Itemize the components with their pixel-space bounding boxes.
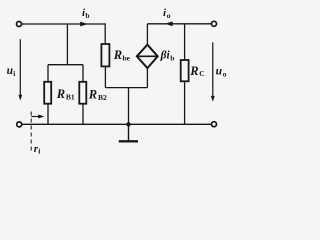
input terminal bottom-left <box>17 122 22 127</box>
svg-text:i: i <box>38 147 40 156</box>
wire R_B1 bottom lead <box>47 104 49 125</box>
arrow u_i (input voltage) <box>19 39 21 97</box>
wire R_C top lead <box>184 24 186 60</box>
junction dot at ground node <box>126 122 130 126</box>
resistor R_B1 <box>44 82 51 104</box>
svg-text:B1: B1 <box>66 92 75 101</box>
wire diamond top lead <box>146 24 148 45</box>
resistor R_B2 <box>79 82 86 104</box>
wire R_be top lead <box>104 23 106 44</box>
wire emitter rail <box>105 87 147 89</box>
svg-text:b: b <box>170 54 174 63</box>
wire top-left horizontal (base node) <box>22 23 105 25</box>
svg-text:B2: B2 <box>98 93 107 102</box>
wire R_B2 bottom lead <box>82 104 84 125</box>
wire diamond bottom lead <box>146 68 148 88</box>
svg-text:R: R <box>189 64 198 78</box>
svg-text:R: R <box>88 88 97 102</box>
wire center drop to ground node <box>128 88 130 125</box>
controlled current source βi_b (diamond) <box>137 45 158 68</box>
svg-text:R: R <box>56 87 65 101</box>
wire vertical to bias rail <box>66 24 68 65</box>
wire R_C bottom lead <box>184 81 186 124</box>
output terminal bottom-right <box>212 122 217 127</box>
arrow i_o on wire (pointing left) <box>165 21 173 26</box>
dashed line r_i <box>30 112 32 152</box>
output terminal top-right <box>212 21 217 26</box>
wire R_B2 top lead <box>82 65 84 82</box>
arrow i_b on wire <box>80 22 88 27</box>
arrow u_o (output voltage) <box>212 42 214 98</box>
svg-text:C: C <box>199 69 204 78</box>
svg-text:b: b <box>85 11 89 20</box>
svg-text:o: o <box>223 69 227 78</box>
svg-text:R: R <box>113 48 122 62</box>
wire top-right horizontal (collector node) <box>147 23 211 25</box>
resistor R_C <box>181 60 189 81</box>
svg-text:o: o <box>167 11 171 20</box>
wire bias rail horizontal <box>48 64 83 66</box>
wire R_B1 top lead <box>47 65 49 82</box>
ground <box>128 124 130 141</box>
svg-text:u: u <box>216 66 223 78</box>
wire bottom rail <box>22 123 212 125</box>
svg-text:i: i <box>13 69 15 78</box>
resistor R_be <box>101 44 109 66</box>
wire R_be bottom lead <box>104 66 106 87</box>
arrow r_i (input resistance) <box>31 116 40 118</box>
svg-text:βi: βi <box>160 50 171 62</box>
svg-text:be: be <box>123 54 131 63</box>
input terminal top-left <box>17 22 22 27</box>
